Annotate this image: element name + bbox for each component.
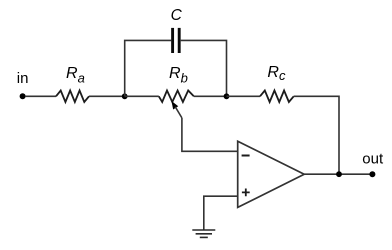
svg-text:C: C — [171, 7, 183, 24]
resistor Rb (potentiometer) — [159, 65, 194, 102]
op-amp U1 — [238, 141, 305, 207]
wire Ra to node A — [89, 95, 125, 97]
wire Rb to node B — [194, 95, 227, 97]
svg-text:out: out — [362, 151, 384, 168]
ground — [192, 230, 215, 237]
svg-text:in: in — [17, 70, 29, 87]
wire node A to Rb — [125, 95, 159, 97]
node feedback junction on output — [336, 171, 342, 177]
potentiometer wiper arrow — [171, 101, 182, 118]
svg-text:Ra: Ra — [66, 65, 85, 86]
node in (input terminal with label) — [17, 70, 29, 99]
svg-text:Rc: Rc — [267, 64, 286, 83]
wire op-amp output to out terminal — [304, 173, 372, 175]
node B (junction of Rb, C branch, Rc) — [224, 93, 230, 99]
resistor Ra — [56, 65, 89, 102]
capacitor C — [171, 7, 183, 53]
resistor Rc — [260, 64, 294, 102]
svg-text:Rb: Rb — [169, 65, 188, 85]
wire capacitor right plate down to node B — [181, 40, 227, 96]
node out (output terminal with label) — [362, 151, 384, 178]
wire in to Ra — [26, 95, 56, 97]
wire Rc feedback to output node — [294, 96, 339, 174]
wire node A up to capacitor left plate — [125, 40, 172, 96]
wire wiper to op-amp inverting input — [182, 118, 238, 151]
wire node B to Rc — [227, 95, 261, 97]
wire non-inverting input to ground — [204, 196, 238, 230]
node A (junction of Ra, C branch, Rb) — [122, 93, 128, 99]
